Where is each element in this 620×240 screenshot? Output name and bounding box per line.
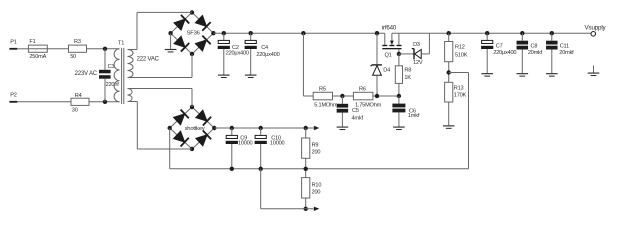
svg-text:510K: 510K [455,53,468,59]
svg-text:220nf: 220nf [106,82,120,88]
svg-text:shottkey: shottkey [185,126,205,132]
svg-text:250mA: 250mA [29,54,46,60]
svg-text:4mkf: 4mkf [352,116,364,122]
svg-text:D3: D3 [413,42,420,48]
svg-text:R10: R10 [312,182,322,188]
svg-text:C5: C5 [352,108,359,114]
svg-text:222 VAC: 222 VAC [137,57,160,63]
svg-text:10000: 10000 [238,141,253,147]
svg-text:C4: C4 [261,45,268,51]
svg-text:C3: C3 [108,64,115,70]
svg-text:223V AC: 223V AC [75,71,98,77]
svg-text:R4: R4 [75,93,82,99]
svg-text:1K: 1K [404,75,411,81]
svg-text:C11: C11 [560,43,569,49]
svg-text:20mkf: 20mkf [559,50,574,56]
svg-text:C7: C7 [496,43,503,49]
svg-text:12V: 12V [413,60,423,66]
svg-text:irf640: irf640 [382,24,397,31]
svg-text:20mkf: 20mkf [528,50,543,56]
svg-text:R5: R5 [319,87,326,93]
svg-text:R6: R6 [359,87,366,93]
svg-text:P1: P1 [10,40,17,46]
svg-text:170K: 170K [454,93,467,99]
svg-text:1.75MOhm: 1.75MOhm [355,102,382,108]
svg-text:220μx400: 220μx400 [493,50,516,56]
svg-text:R8: R8 [404,68,411,74]
svg-text:P2: P2 [10,93,17,99]
svg-text:SF36: SF36 [187,30,200,36]
svg-text:50: 50 [70,54,76,60]
svg-text:200: 200 [312,190,321,196]
svg-text:220μx400: 220μx400 [256,52,279,58]
svg-text:R9: R9 [312,143,319,149]
svg-text:C8: C8 [531,43,538,49]
svg-text:R13: R13 [454,86,464,92]
svg-text:10000: 10000 [270,141,285,147]
svg-text:R3: R3 [74,39,81,45]
svg-text:1mkf: 1mkf [408,113,420,119]
svg-text:Q1: Q1 [385,53,392,59]
svg-text:5.1MOhm: 5.1MOhm [314,102,338,108]
svg-text:Vsupply: Vsupply [585,24,607,31]
svg-text:30: 30 [72,107,78,113]
svg-text:D4: D4 [383,67,390,73]
svg-text:F1: F1 [29,39,35,45]
svg-text:T1: T1 [118,41,124,47]
svg-text:R12: R12 [455,45,465,51]
svg-text:200: 200 [312,150,321,156]
svg-text:220μx400: 220μx400 [226,51,249,57]
